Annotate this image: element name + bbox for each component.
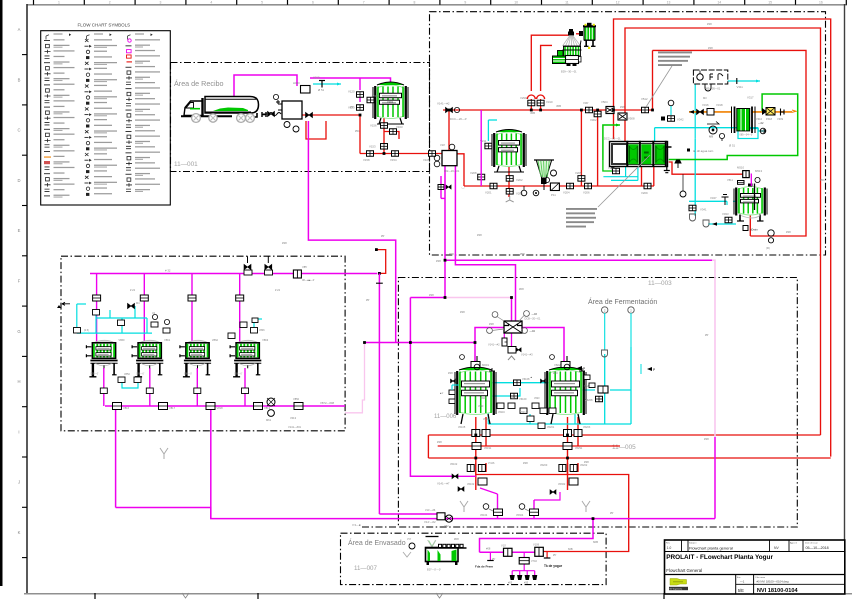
svg-text:V62: V62: [444, 524, 449, 528]
svg-text:V10’: V10’: [440, 143, 446, 147]
wire cyan feedtank top: [488, 120, 497, 141]
svg-text:V512: V512: [641, 97, 648, 101]
4tank tank bottom valves: [100, 388, 248, 394]
svg-text:PROLAIT - FLowchart Planta Yog: PROLAIT - FLowchart Planta Yogur: [666, 554, 773, 561]
svg-text:V702: V702: [531, 560, 537, 563]
valve V205: [578, 176, 585, 182]
svg-text:M9: M9: [709, 135, 713, 139]
svg-text:Date of issue: Date of issue: [805, 542, 819, 545]
pressure gauges on main line: [521, 186, 539, 196]
svg-text:E07—0’—0’: E07—0’—0’: [427, 568, 441, 572]
tank M510 drain labels: [743, 226, 791, 251]
wire red silo bottom: [383, 118, 385, 154]
svg-text:V158: V158: [363, 158, 370, 162]
wire magenta cross line y342: [365, 342, 476, 344]
svg-text:V30’: V30’: [583, 101, 589, 105]
svg-text:#38: #38: [707, 22, 712, 26]
label V019: [313, 76, 325, 93]
wire cyan recibo vent: [313, 81, 341, 88]
svg-text:P: P: [653, 368, 655, 372]
wire pink vertical x715: [712, 260, 715, 437]
svg-text:V6102: V6102: [450, 463, 458, 466]
svg-text:#0 NVI 18100—0104.dwg: #0 NVI 18100—0104.dwg: [757, 579, 789, 583]
Y drains ferm: [160, 448, 590, 512]
svg-text:I: I: [18, 429, 19, 434]
svg-text:P11: P11: [551, 193, 556, 197]
valve V6206 cyan: [584, 384, 608, 393]
svg-text:Área de Recibo: Área de Recibo: [174, 79, 224, 88]
area box 11-007 Area de Envasado: [341, 533, 607, 584]
drain arrow below V203: [506, 196, 514, 202]
svg-text:#5’: #5’: [381, 234, 385, 238]
4tank instrument cluster: [128, 302, 171, 333]
filler bag symbols: [508, 575, 537, 585]
svg-text:14: 14: [717, 0, 721, 4]
svg-text:V204: V204: [563, 191, 570, 195]
wire magenta filler manifold: [512, 552, 535, 575]
valve V141-6: [425, 509, 445, 520]
svg-text:12: 12: [616, 0, 620, 4]
junction dots: [359, 109, 654, 520]
wire cyan ferm right loop: [488, 347, 631, 424]
wire pink link 4tank to cross line: [345, 343, 365, 413]
svg-text:60B: 60B: [593, 540, 598, 544]
svg-text:# 32: # 32: [165, 269, 171, 273]
separator feed tank: [579, 23, 596, 49]
svg-text:M4: M4: [136, 302, 140, 305]
buffer tank M510: [734, 184, 767, 222]
svg-text:1.0: 1.0: [667, 546, 672, 550]
wire magenta filler line: [480, 551, 536, 553]
svg-text:V’0’: V’0’: [407, 538, 412, 541]
svg-text:V6362: V6362: [558, 483, 566, 486]
wire magenta truck fill: [234, 75, 297, 100]
valve V158: [367, 151, 374, 157]
svg-text:DCB—20—01: DCB—20—01: [525, 318, 541, 321]
wire red tank M510 drain: [749, 216, 751, 237]
svg-text:05—10—2018: 05—10—2018: [806, 546, 829, 550]
flexible hose truck to pump: [263, 111, 281, 116]
svg-text:Flowchart planta general: Flowchart planta general: [689, 546, 733, 551]
svg-text:V141—#2: V141—#2: [488, 343, 500, 347]
svg-text:V019: V019: [313, 76, 320, 80]
svg-text:V342: V342: [677, 118, 684, 122]
valve V702: [519, 558, 537, 565]
svg-text:V201: V201: [485, 191, 492, 195]
valve V299: [528, 100, 535, 106]
wire cyan ferm transfer line: [492, 382, 548, 384]
valve V129: [348, 105, 364, 111]
svg-text:FLOW CHART SYMBOLS: FLOW CHART SYMBOLS: [78, 23, 131, 28]
wire magenta drop x379 to CIP return: [376, 274, 437, 515]
svg-text:Ø 51: Ø 51: [729, 144, 736, 148]
svg-text:#38: #38: [429, 293, 434, 297]
valve on mixer stub: [438, 185, 444, 190]
svg-text:45B: 45B: [556, 104, 561, 108]
svg-text:16: 16: [819, 0, 823, 4]
svg-text:Área de Envasado: Área de Envasado: [348, 538, 406, 547]
recibo receiver/pump unit: [273, 94, 312, 132]
svg-text:1: 1: [58, 0, 60, 4]
svg-text:—02: —02: [758, 121, 764, 125]
wire green HX left: [603, 124, 620, 161]
svg-text:#38: #38: [449, 252, 454, 256]
valve V204: [567, 183, 574, 189]
magenta vertical x481: [480, 110, 482, 186]
valve M510: [737, 166, 762, 183]
svg-text:M601: M601: [482, 363, 489, 367]
svg-text:Área de Fermentación: Área de Fermentación: [588, 297, 657, 306]
svg-text:#08: #08: [486, 547, 491, 551]
V850 cluster below T1: [118, 373, 141, 383]
wire cyan 4tank network: [77, 304, 262, 388]
svg-text:E09—30—01: E09—30—01: [561, 70, 577, 74]
valve V211 cyan: [485, 143, 492, 149]
svg-text:Tk de yogur: Tk de yogur: [544, 564, 563, 568]
wire red ferm valve row: [438, 445, 620, 447]
valve V141-2 on header: [437, 102, 453, 113]
svg-text:V818: V818: [217, 406, 224, 410]
svg-text:#58: #58: [520, 252, 525, 256]
svg-text:V6109: V6109: [519, 397, 527, 401]
svg-text:#08: #08: [519, 287, 524, 291]
hatched relief F518: [756, 108, 784, 122]
separator E09: [553, 29, 582, 74]
pump P11: [544, 177, 559, 197]
manifold box E08: [487, 311, 541, 360]
svg-text:13: 13: [667, 0, 671, 4]
valve V342: [661, 100, 684, 121]
svg-text:V862: V862: [212, 338, 219, 342]
svg-text:► dil agua turn: ► dil agua turn: [693, 149, 714, 153]
svg-text:V331: V331: [608, 166, 615, 170]
valve V331 green: [613, 168, 620, 174]
left arrow into box: [57, 302, 70, 308]
svg-text:V033: V033: [722, 212, 729, 216]
wire red HX feed risers: [642, 167, 654, 186]
svg-text:F: F: [18, 279, 21, 284]
red inner loop: [653, 50, 807, 236]
wire magenta ferm side outlets: [480, 488, 560, 519]
wire cyan ferm line2: [492, 388, 520, 396]
svg-text:V508: V508: [628, 117, 635, 121]
wire magenta manifold exits down: [116, 406, 211, 519]
svg-text:V816: V816: [123, 406, 130, 410]
red outer CIP loop top: [614, 19, 831, 457]
svg-text:Fda de Prem: Fda de Prem: [475, 565, 493, 569]
4tank header label: [130, 269, 281, 293]
svg-text:#51: #51: [355, 129, 360, 133]
wire magenta line A from mixer: [445, 166, 712, 260]
svg-text:V6108: V6108: [522, 377, 530, 381]
svg-text:4: 4: [210, 0, 212, 4]
valve V310: [537, 100, 544, 106]
valve V511: [727, 178, 744, 184]
valve V6162: [458, 478, 487, 491]
wire magenta 4tank bottom manifold: [105, 405, 302, 407]
svg-text:—1: —1: [740, 580, 745, 584]
svg-text:P: P: [583, 367, 585, 371]
valve V163: [390, 125, 403, 134]
svg-text:V85’: V85’: [302, 265, 308, 269]
4tank left cyan valves: [74, 310, 266, 334]
ferm manifold valves V6105 V6109: [458, 426, 591, 437]
svg-text:H: H: [17, 379, 20, 384]
svg-text:K: K: [18, 530, 21, 535]
storage tank V803: [180, 340, 211, 377]
misc small labels: [282, 22, 825, 544]
svg-text:V850: V850: [293, 397, 300, 401]
svg-text:V6105: V6105: [458, 426, 466, 429]
wire cyan hot water line: [695, 84, 758, 139]
legend FLOW CHART SYMBOLS: [41, 23, 171, 206]
svg-text:B: B: [18, 77, 21, 82]
svg-text:V310: V310: [546, 100, 553, 104]
wire red feedtank riser: [508, 166, 510, 197]
svg-text:E: E: [18, 228, 21, 233]
svg-text:#38: #38: [437, 440, 442, 444]
wire cyan HX bottom pair: [603, 167, 638, 181]
svg-text:V141—#01: V141—#01: [288, 425, 302, 429]
wire cyan tank M510 bottom: [708, 222, 736, 226]
svg-text:V6201: V6201: [547, 426, 555, 429]
svg-text:008—0’: 008—0’: [184, 373, 193, 376]
valve V504 filled: [601, 100, 614, 114]
svg-text:V860: V860: [118, 338, 125, 342]
wire cyan to tank valves: [689, 201, 736, 216]
valve V141-7 magenta: [437, 474, 458, 485]
wire magenta A downleg: [410, 260, 445, 297]
svg-text:#5’: #5’: [350, 105, 354, 109]
valve V141-3 below manifold: [508, 347, 533, 357]
svg-text:NVI 18100-0104: NVI 18100-0104: [757, 588, 799, 594]
4tank tank labels: [90, 338, 268, 376]
svg-text:V10’: V10’: [501, 544, 507, 548]
storage tank V801: [86, 340, 117, 377]
pump M61: [266, 398, 275, 422]
svg-text:002—20—01: 002—20—01: [444, 169, 460, 173]
cone mixer hopper: [534, 160, 557, 190]
valve V508: [618, 113, 635, 121]
truck tanker: [181, 97, 266, 123]
svg-text:#38: #38: [584, 460, 589, 464]
valve V206: [585, 183, 592, 189]
svg-text:#50: #50: [553, 371, 558, 375]
svg-text:M513: M513: [755, 169, 762, 173]
cyan stub M601 left: [452, 385, 459, 390]
svg-text:V511: V511: [727, 178, 733, 182]
note text top right: [646, 52, 692, 108]
svg-text:085—04—0’: 085—04—0’: [740, 134, 754, 137]
svg-text:V6202: V6202: [580, 464, 588, 467]
svg-text:60B: 60B: [568, 547, 573, 551]
valve V6208: [596, 396, 603, 402]
gauge below y174 line: [680, 174, 686, 197]
wire cyan ferm inter-tank drops: [488, 410, 575, 424]
valve V307: [586, 107, 593, 113]
filler machine E07: [426, 537, 467, 572]
svg-text:#5’: #5’: [492, 558, 496, 561]
valve V153: [369, 144, 388, 150]
wire red filler stub: [546, 552, 548, 559]
svg-text:V6203: V6203: [583, 426, 591, 429]
svg-text:V141—#7: V141—#7: [437, 481, 450, 485]
valve V203: [506, 189, 513, 195]
wire red ferm tank risers right: [568, 417, 579, 475]
ferm lower valve rows: [450, 462, 588, 472]
svg-text:G: G: [17, 329, 20, 334]
wire cyan pump box line V311: [728, 78, 760, 84]
svg-text:#05: #05: [508, 582, 513, 585]
wire magenta silo top feed: [310, 78, 391, 102]
svg-text:A: A: [18, 27, 21, 32]
svg-text:11—006: 11—006: [434, 414, 457, 420]
valve V6362: [550, 478, 578, 494]
valve V154: [392, 151, 399, 157]
svg-text:V154: V154: [390, 158, 397, 162]
svg-text:V202: V202: [516, 178, 523, 182]
wire magenta x715 lower: [714, 437, 716, 519]
svg-text:V872—#08: V872—#08: [320, 401, 334, 405]
svg-text:(FI): (FI): [766, 246, 770, 250]
valve V6108b: [511, 393, 518, 399]
valve V871 right exit: [288, 397, 303, 429]
svg-text:V105: V105: [423, 158, 430, 162]
wire magenta manifold box branches: [475, 328, 564, 370]
svg-text:V141—#3: V141—#3: [521, 353, 533, 357]
svg-text:V316: V316: [702, 103, 709, 107]
svg-text:V6200: V6200: [540, 464, 548, 467]
wire red silo drain branch: [384, 132, 399, 140]
svg-text:NV: NV: [774, 546, 779, 550]
svg-text:3: 3: [160, 0, 162, 4]
svg-text:V156: V156: [370, 124, 377, 128]
svg-text:#38: #38: [523, 461, 528, 465]
wire red vertical header x597: [597, 110, 599, 186]
svg-text:’—’: ’—’: [461, 186, 465, 190]
gauge W62 area: [403, 538, 415, 557]
P flags: [577, 364, 655, 374]
svg-text:8: 8: [414, 0, 416, 4]
svg-text:V206: V206: [583, 191, 590, 195]
svg-text:V6164: V6164: [480, 514, 488, 517]
svg-text:#38: #38: [489, 322, 494, 326]
wire magenta main CIP return y518: [116, 508, 715, 519]
wire magenta mixer stub U: [441, 176, 445, 198]
cyan flasks circles: [602, 307, 635, 357]
svg-text:15: 15: [768, 0, 772, 4]
svg-text:08—■■—0’: 08—■■—0’: [302, 279, 315, 282]
ferm inter-tank valve cluster: [478, 397, 556, 429]
svg-text:#38: #38: [786, 230, 791, 234]
cream HX small: [732, 96, 756, 134]
svg-text:M3: M3: [703, 96, 707, 100]
svg-text:V806: V806: [259, 329, 265, 332]
wire magenta line B vessel to manifold box: [455, 166, 515, 321]
svg-text:11—001: 11—001: [174, 161, 198, 168]
wire red recibo main to mixer: [360, 153, 442, 155]
valve V341 + flask: [689, 205, 707, 221]
svg-text:11—007: 11—007: [354, 565, 377, 572]
svg-text:V311: V311: [737, 85, 744, 89]
title block: [665, 540, 845, 594]
svg-text:V153: V153: [369, 144, 376, 148]
svg-text:V14’—#2: V14’—#2: [424, 520, 436, 524]
milk silo V101: [373, 82, 408, 124]
wire magenta envasado feed: [480, 519, 594, 553]
svg-text:V602: V602: [554, 363, 561, 367]
svg-text:V347: V347: [710, 196, 717, 200]
svg-text:008—0’: 008—0’: [90, 373, 99, 376]
svg-text:11: 11: [565, 0, 569, 4]
svg-text:#5’: #5’: [366, 298, 370, 302]
svg-text:#51: #51: [820, 178, 825, 182]
svg-text:V621’: V621’: [534, 397, 541, 400]
svg-text:V817: V817: [169, 406, 176, 410]
valve V101 filler: [486, 544, 512, 557]
svg-text:#5’: #5’: [553, 554, 557, 557]
svg-text:V317: V317: [747, 96, 754, 100]
svg-text:▲: ▲: [530, 376, 532, 379]
wire red mixer outlet: [457, 154, 464, 186]
mixer vessel M-002: [434, 143, 460, 173]
svg-text:D: D: [17, 178, 20, 183]
svg-text:#38: #38: [448, 371, 453, 375]
valve V347: [710, 195, 729, 206]
svg-text:#38: #38: [436, 259, 441, 263]
Tk de yogur label: [544, 554, 563, 568]
svg-text:DCC—03—01: DCC—03—01: [604, 137, 621, 141]
red inner loop left vertical: [652, 50, 654, 110]
H020 valve box: [293, 81, 310, 93]
ferm tank M602: [545, 362, 586, 425]
svg-text:V209: V209: [641, 191, 648, 195]
4tank manifold valves: [113, 403, 271, 411]
wire orange cream line: [689, 110, 796, 114]
wire red separator to small tank: [576, 33, 583, 35]
svg-text:#38: #38: [620, 105, 625, 109]
svg-text:NV Ingeniería: NV Ingeniería: [670, 588, 684, 591]
arrow-box 02 right: [760, 128, 766, 134]
valve V6164: [480, 504, 503, 517]
svg-text:F518: F518: [766, 117, 772, 121]
svg-text:#38: #38: [477, 233, 482, 237]
svg-text:V6304: V6304: [516, 514, 524, 517]
svg-text:008—0’: 008—0’: [234, 373, 243, 376]
wire red yogurt transfer to filler: [476, 475, 629, 552]
valve V202: [506, 176, 513, 182]
red middle CIP loop: [625, 28, 821, 435]
agitator marks above tanks: [460, 355, 585, 371]
svg-text:V302: V302: [590, 118, 597, 122]
wire cyan manifold top right: [655, 128, 765, 141]
valve V512: [642, 107, 649, 113]
svg-text:V109: V109: [533, 543, 540, 547]
svg-text:V14’—#6: V14’—#6: [425, 509, 436, 512]
wire red separator feeds: [527, 35, 568, 110]
svg-text:◂Drain: ◂Drain: [750, 228, 758, 232]
wire red truck pump to silo area: [302, 115, 360, 154]
svg-text:V6112: V6112: [483, 418, 490, 421]
tap symbol after HX: [675, 160, 681, 168]
svg-text:V299: V299: [520, 96, 527, 100]
svg-text:#38: #38: [708, 46, 713, 50]
pump V62 on CIP return: [444, 515, 453, 528]
orange line valves V316 V318: [697, 103, 723, 115]
svg-text:2: 2: [109, 0, 111, 4]
wire magenta 4tank drops: [97, 274, 240, 343]
svg-text:V6115: V6115: [480, 397, 487, 400]
